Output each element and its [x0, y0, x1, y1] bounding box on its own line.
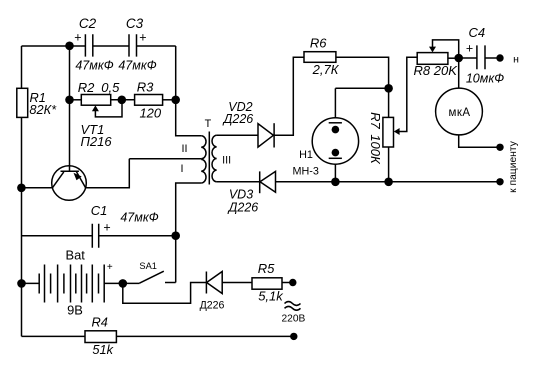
wire diode to R5 [222, 282, 252, 284]
svg-text:SA1: SA1 [139, 261, 157, 271]
svg-text:П216: П216 [81, 134, 113, 149]
svg-text:Д226: Д226 [222, 112, 254, 126]
svg-text:Bat: Bat [66, 247, 86, 262]
svg-text:R4: R4 [92, 315, 108, 330]
svg-text:н: н [513, 53, 519, 65]
svg-text:2,7К: 2,7К [312, 62, 340, 77]
transformer winding III [212, 135, 217, 182]
svg-text:+: + [74, 31, 81, 45]
wire lamp branch horizontal [335, 87, 388, 89]
transformer winding I [201, 159, 206, 183]
svg-text:10мкФ: 10мкФ [466, 72, 504, 86]
node terminal patient lower [496, 178, 503, 185]
node R3 right junction [171, 96, 180, 105]
svg-text:47мкФ: 47мкФ [118, 59, 156, 73]
node battery-switch junction [119, 279, 128, 288]
capacitor C4 [477, 45, 485, 69]
svg-text:R5: R5 [258, 261, 275, 276]
svg-text:МН-3: МН-3 [292, 166, 318, 178]
wire battery left [22, 282, 40, 284]
wire R8 right [448, 57, 459, 59]
svg-text:II: II [182, 143, 188, 155]
wire top bus left segment [22, 45, 86, 47]
resistor R3 [135, 95, 163, 106]
symbol AC approx [285, 302, 301, 311]
wire R2 left [70, 99, 82, 101]
wire battery to diode path [123, 283, 207, 304]
capacitor C3 [129, 34, 137, 56]
svg-text:R8 20K: R8 20K [414, 63, 459, 78]
wire R8 wiper [433, 40, 459, 58]
svg-text:C1: C1 [91, 203, 108, 218]
wire winding III top to VD2 [217, 134, 258, 136]
svg-text:+: + [466, 42, 473, 56]
R8 wiper arrow [429, 47, 436, 53]
node top junction [65, 42, 74, 51]
resistor R7 [383, 117, 394, 147]
capacitor C1 [92, 224, 98, 248]
svg-text:47мкФ: 47мкФ [120, 211, 158, 225]
node lamp bus junction [331, 178, 340, 187]
svg-text:R6: R6 [310, 36, 327, 51]
resistor R6 [304, 52, 336, 63]
svg-text:мкА: мкА [448, 107, 470, 119]
wire C4 right [485, 57, 500, 59]
resistor R5 [252, 278, 282, 289]
svg-text:C4: C4 [468, 25, 485, 40]
wire lamp bottom to bus [334, 164, 336, 182]
node C1 junction [171, 231, 180, 240]
R7 wiper arrow [394, 128, 400, 135]
node rail-transistor junction [17, 184, 26, 193]
wire C3 to corner [137, 45, 176, 47]
svg-text:120: 120 [139, 106, 161, 121]
wire R6 right [336, 57, 389, 117]
svg-text:C3: C3 [126, 16, 144, 31]
svg-text:C2: C2 [79, 16, 97, 31]
wire bus VD3 to terminal [276, 181, 501, 183]
wire between C2 and C3 [93, 45, 129, 47]
node R7 bus junction [384, 178, 393, 187]
switch SA1 blade [139, 271, 163, 283]
R2 wiper arrow [92, 105, 99, 111]
resistor R4 [85, 331, 116, 343]
switch SA1 right contact [165, 282, 176, 284]
svg-text:82К*: 82К* [29, 102, 57, 117]
meter uA [436, 58, 483, 135]
svg-text:+: + [107, 262, 113, 273]
diode D226 (charger) [206, 272, 222, 294]
svg-text:+: + [139, 31, 146, 45]
wire VD2 to R6 riser [274, 57, 304, 135]
wire winding III bottom to VD3 [217, 181, 260, 183]
wire C1 row [22, 235, 93, 237]
wire R5 right [282, 282, 293, 284]
node 220V terminal lower [290, 333, 297, 340]
svg-text:R7: R7 [368, 112, 383, 129]
wire winding I bottom to vertical [176, 183, 202, 283]
wire lamp branch vertical [334, 88, 336, 118]
wire R3 right [163, 99, 176, 101]
svg-text:5,1k: 5,1k [258, 289, 284, 304]
svg-text:R2: R2 [78, 80, 95, 95]
node R6 lamp junction [384, 84, 393, 93]
svg-text:Д226: Д226 [200, 300, 225, 312]
wire R4 to 220V terminal [116, 335, 293, 337]
svg-text:R3: R3 [137, 79, 154, 94]
wire bottom to R4 [22, 335, 86, 337]
transformer T core [208, 132, 210, 185]
svg-text:Н1: Н1 [299, 149, 313, 161]
diode VD2 [258, 123, 274, 147]
svg-text:III: III [222, 155, 231, 167]
wire R2 to R3 [111, 99, 135, 101]
node terminal H [496, 54, 503, 61]
transformer winding II [201, 136, 206, 159]
svg-text:9В: 9В [67, 303, 83, 318]
svg-text:Д226: Д226 [227, 200, 259, 214]
wire R7 bottom to bus [388, 147, 390, 182]
resistor R1 [17, 88, 28, 117]
resistor R8 [417, 53, 448, 65]
svg-text:Т: Т [205, 118, 212, 130]
wire left rail lower [21, 117, 23, 336]
transistor VT1 [52, 166, 87, 201]
node rail-battery junction [17, 279, 26, 288]
svg-text:к пациенту: к пациенту [508, 140, 519, 193]
node R8-C4-meter junction [454, 54, 463, 63]
wire meter bottom to terminal [459, 135, 500, 147]
svg-text:100К: 100К [368, 134, 383, 165]
wire R7 wiper to R8 [399, 57, 417, 131]
diode VD3 [260, 171, 276, 193]
svg-text:220В: 220В [282, 314, 306, 325]
wire base vertical [69, 46, 71, 171]
battery Bat cells [39, 265, 104, 303]
resistor R2 [81, 95, 110, 106]
svg-text:I: I [181, 163, 184, 175]
node 220V terminal upper [289, 279, 296, 286]
lamp H1 [312, 118, 358, 164]
wire C4 left [459, 57, 477, 59]
node R2-R3 junction [118, 96, 127, 105]
svg-text:47мкФ: 47мкФ [75, 59, 113, 73]
wire right vertical upper [176, 46, 202, 136]
wire transistor base left [21, 187, 52, 189]
wire mid-tap [129, 158, 201, 160]
node R2 left junction [65, 96, 74, 105]
node terminal patient upper [496, 144, 503, 151]
svg-text:51k: 51k [92, 342, 113, 357]
wire transistor right to riser [86, 159, 130, 188]
capacitor C2 [85, 34, 92, 56]
wire C1 right [99, 235, 176, 237]
wire left rail upper [21, 46, 23, 88]
wire R2 wiper [95, 104, 122, 117]
svg-text:0,5: 0,5 [101, 80, 120, 95]
wire battery right [104, 282, 139, 284]
svg-text:+: + [103, 221, 110, 235]
